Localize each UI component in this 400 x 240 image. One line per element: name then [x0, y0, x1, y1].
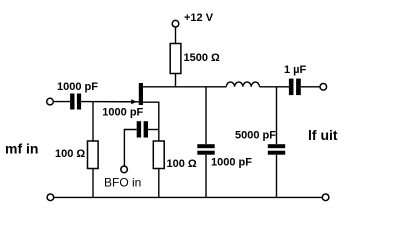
wire ground rail [54, 196, 322, 198]
svg-text:BFO in: BFO in [104, 175, 141, 189]
capacitor C5 1 uF (series output) [289, 79, 301, 96]
svg-text:mf in: mf in [5, 141, 38, 157]
wire node to C4 shunt [276, 87, 278, 144]
capacitor C4 5000 pF (shunt) [268, 144, 285, 155]
wire C1 to gate [81, 101, 140, 103]
svg-text:1000 pF: 1000 pF [211, 157, 252, 169]
wire R2 to ground rail [158, 169, 160, 198]
wire C5 to output terminal [301, 86, 320, 88]
wire R1 to ground rail [92, 169, 94, 198]
capacitor C1 1000 pF (series input) [70, 94, 81, 110]
svg-text:1500 Ω: 1500 Ω [184, 52, 221, 64]
svg-text:5000 pF: 5000 pF [235, 130, 276, 142]
wire source [143, 102, 159, 141]
wire R3 to drain rail [175, 74, 177, 88]
resistor R3 1500 Ohm [170, 44, 181, 74]
svg-text:1 µF: 1 µF [284, 64, 307, 76]
wire drain rail [143, 86, 226, 88]
wire +12V to R3 [175, 27, 177, 44]
terminal lf uit output [320, 84, 327, 91]
svg-text:+12 V: +12 V [184, 12, 214, 24]
wire node A down to R1 [92, 102, 94, 141]
terminal ground left [47, 194, 54, 201]
terminal +12 V [172, 20, 179, 27]
transistor Q1 gate arrow [131, 99, 137, 104]
resistor R2 100 Ohm (source) [153, 141, 164, 169]
wire L1 to C5 [260, 86, 290, 88]
wire node to C3 shunt [205, 87, 207, 144]
terminal ground right [322, 194, 329, 201]
terminal mf-in input [47, 98, 54, 105]
inductor L1 [226, 82, 259, 87]
capacitor C2 1000 pF (BFO coupling) [137, 121, 148, 137]
svg-text:lf uit: lf uit [308, 127, 338, 143]
wire C2 left lead to BFO terminal [124, 130, 136, 167]
wire input to C1 [54, 101, 71, 103]
capacitor C3 1000 pF (shunt) [197, 144, 214, 155]
terminal BFO in [121, 166, 128, 173]
svg-text:1000 pF: 1000 pF [57, 81, 98, 93]
resistor R1 100 Ohm [88, 141, 99, 169]
transistor Q1 channel bar [139, 83, 143, 105]
svg-text:100 Ω: 100 Ω [167, 158, 197, 170]
svg-text:1000 pF: 1000 pF [102, 107, 143, 119]
svg-text:100 Ω: 100 Ω [55, 148, 85, 160]
wire C4 to ground rail [276, 155, 278, 198]
wire C2 right lead to source line [148, 129, 160, 131]
wire C3 to ground rail [205, 155, 207, 198]
